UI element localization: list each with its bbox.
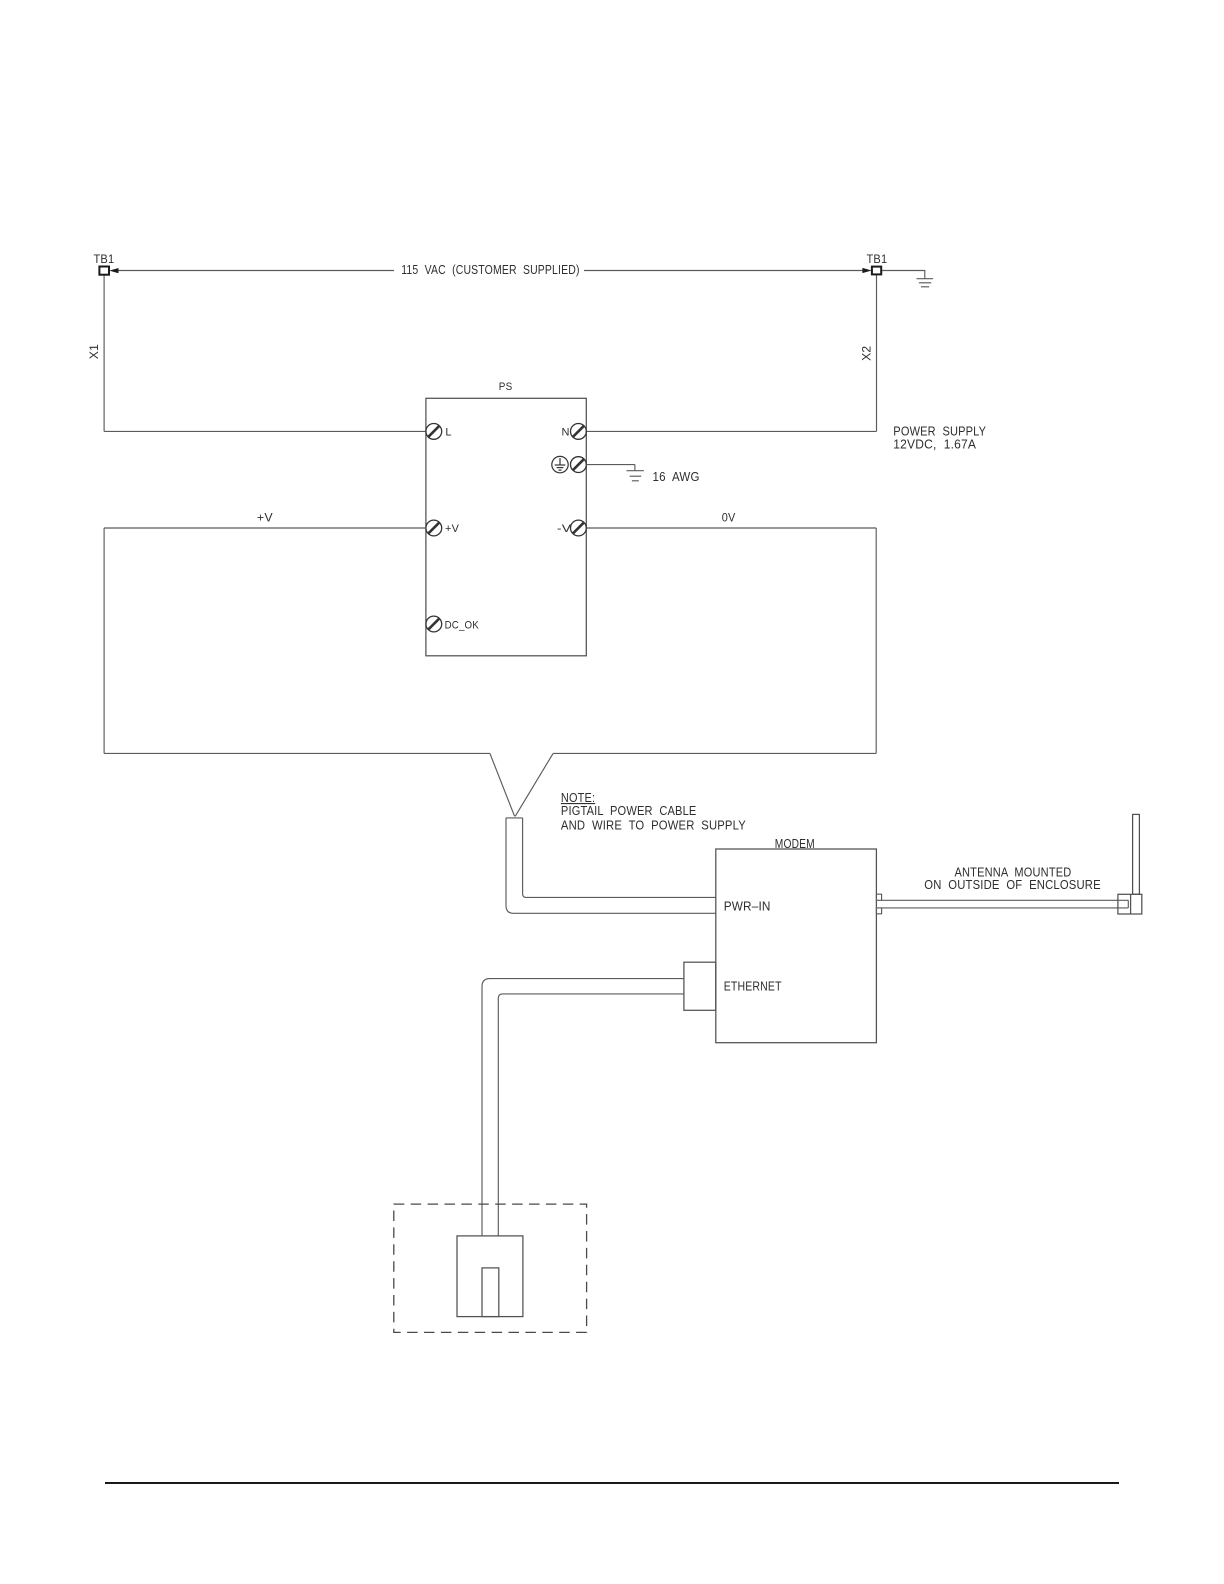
svg-text:-V: -V [557,523,572,535]
svg-text:MODEM: MODEM [775,836,815,851]
svg-text:16 AWG: 16 AWG [653,469,700,484]
svg-text:X2: X2 [859,346,873,361]
svg-text:115 VAC (CUSTOMER SUPPLIED): 115 VAC (CUSTOMER SUPPLIED) [401,262,579,277]
svg-text:12VDC, 1.67A: 12VDC, 1.67A [893,436,976,451]
svg-text:ON OUTSIDE OF ENCLOSURE: ON OUTSIDE OF ENCLOSURE [924,877,1101,892]
svg-text:+V: +V [445,523,460,535]
svg-text:0V: 0V [722,511,736,525]
svg-text:PS: PS [499,381,513,393]
svg-text:+V: +V [257,511,273,525]
svg-text:PWR–IN: PWR–IN [724,899,771,914]
svg-text:AND WIRE TO POWER SUPPLY: AND WIRE TO POWER SUPPLY [561,817,746,832]
svg-text:TB1: TB1 [867,252,888,266]
svg-text:DC_OK: DC_OK [445,619,480,631]
svg-text:N: N [562,426,570,438]
svg-text:L: L [445,426,451,438]
svg-text:PIGTAIL POWER CABLE: PIGTAIL POWER CABLE [561,803,697,818]
svg-text:ETHERNET: ETHERNET [724,979,782,994]
svg-text:TB1: TB1 [94,252,115,266]
svg-text:X1: X1 [87,344,101,359]
